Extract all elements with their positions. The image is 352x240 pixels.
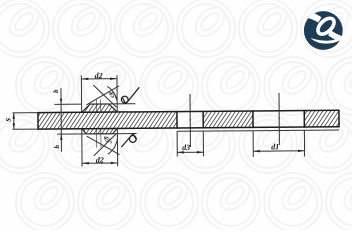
boss inner verticals (tongue edges) [95, 99, 97, 112]
label d2 (bottom) [96, 157, 104, 163]
label s (plate thickness) [6, 118, 11, 121]
d2 extensions [80, 75, 82, 112]
arrows [12, 76, 304, 165]
hatched bar segments [38, 112, 177, 130]
d3 extensions [176, 131, 178, 156]
label b (bottom raised face height) [54, 145, 59, 148]
d2 top [81, 78, 88, 81]
second lower line on right part [177, 130, 339, 131]
label b (top raised face height) [53, 90, 58, 93]
d3 [177, 151, 184, 154]
d2 dim lines [81, 78, 117, 80]
45 deg construction top [86, 86, 119, 105]
bottom face line extended [57, 133, 136, 136]
s [12, 113, 15, 119]
d1 [253, 150, 260, 153]
bottom boss [82, 128, 118, 133]
thin lines [12, 74, 305, 168]
b dim vertical [60, 88, 63, 152]
45 deg construction bottom [87, 136, 120, 155]
d1 extensions [252, 131, 254, 157]
bar outline [37, 110, 339, 130]
top face line extended (b ext + surface symbol seat) [54, 103, 81, 105]
b bottom arrow up to face line [60, 134, 63, 140]
label d2 (top) [95, 73, 103, 79]
d2 bottom [82, 162, 89, 165]
top boss (raised face, section) [82, 104, 118, 112]
label 45deg (top chamfer angle) [108, 90, 118, 100]
label d3 (bolt hole dia) [182, 144, 190, 150]
label d1 (bore dia) [271, 144, 278, 150]
technical drawing, slightly tilted like the scan [6, 71, 340, 167]
surface finish symbols [121, 87, 140, 147]
s extensions + dim [12, 112, 37, 114]
label 45deg (bottom chamfer angle) [103, 135, 112, 145]
b top arrow down to face line [60, 99, 63, 105]
